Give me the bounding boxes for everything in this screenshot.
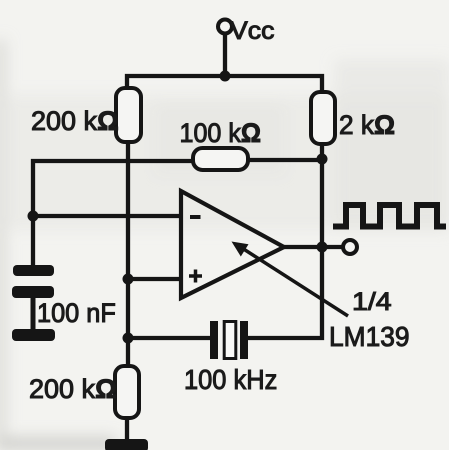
svg-text:1/4: 1/4 (352, 288, 392, 316)
resistor R3 100k horizontal (193, 148, 248, 170)
wire: plus input (128, 277, 181, 281)
terminal output open circle (343, 240, 357, 254)
wire: top rail (127, 76, 322, 92)
svg-text:2 kΩ: 2 kΩ (339, 110, 395, 140)
wire: output (284, 245, 343, 249)
svg-text:200 kΩ: 200 kΩ (31, 106, 119, 136)
wire: bottom resistor to ground (125, 418, 129, 442)
wire: Vcc stem (223, 32, 227, 78)
terminal Vcc open circle (218, 20, 232, 34)
op-amp U1 triangle (181, 191, 284, 298)
wire: 100k right segment to node B (248, 158, 322, 162)
annotation arrow to U1 (232, 242, 349, 317)
ground (bottom) (105, 439, 148, 450)
wire: minus input (33, 214, 181, 218)
node: output junction (317, 242, 328, 253)
svg-text:100 nF: 100 nF (37, 298, 116, 328)
op-amp U1 plus symbol (189, 270, 202, 283)
wire: center vertical (node A) (126, 142, 130, 366)
node: plus input junction (123, 274, 134, 285)
svg-text:Vcc: Vcc (230, 17, 274, 45)
svg-text:200 kΩ: 200 kΩ (29, 374, 117, 404)
svg-text:100 kHz: 100 kHz (184, 364, 277, 395)
svg-text:100 kΩ: 100 kΩ (180, 118, 262, 148)
ground (left, below C1) (12, 329, 55, 341)
node: minus input junction (28, 211, 39, 222)
crystal Y1 body (224, 322, 236, 359)
resistor R2 2k top-right (311, 92, 335, 144)
svg-text:LM139: LM139 (329, 321, 410, 352)
square wave symbol (333, 205, 446, 227)
node: 2k/100k junction (317, 154, 328, 165)
crystal Y1 left plate (210, 321, 218, 359)
node: crystal-left junction (123, 333, 134, 344)
wire: crystal left segment (128, 336, 211, 340)
resistor R1 200k top-left (116, 88, 141, 142)
capacitor C1 plate 2 (12, 286, 54, 298)
crystal Y1 right plate (240, 321, 248, 359)
wire: capacitor to ground stub (31, 297, 36, 331)
capacitor C1 plate 1 (13, 265, 54, 276)
wire: right vertical from 2k to crystal (248, 144, 322, 338)
node: Vcc junction (220, 71, 231, 82)
op-amp U1 minus symbol (190, 215, 201, 219)
resistor R4 200k bottom (115, 366, 139, 418)
wire: left vertical from y160 corner to capacitor (33, 161, 193, 266)
